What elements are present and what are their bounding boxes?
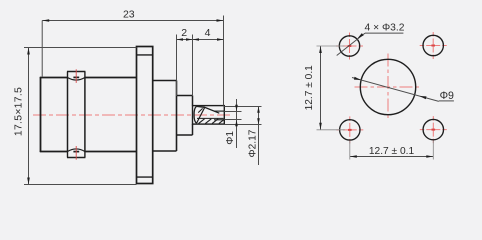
- dimension phi 9: [352, 78, 439, 102]
- top-right mounting hole crosshair: [420, 45, 447, 47]
- flange top corner line: [137, 54, 153, 56]
- bottom-left mounting hole: [340, 120, 360, 140]
- dimension 12.7 horizontal: [350, 156, 434, 158]
- bottom stud centerline: [75, 146, 77, 160]
- dimension 12.7 vertical: [320, 46, 322, 130]
- contact hatch: [199, 119, 205, 124]
- svg-text:Φ1: Φ1: [225, 131, 236, 145]
- center circle phi 9: [360, 59, 415, 114]
- svg-text:12.7 ± 0.1: 12.7 ± 0.1: [369, 146, 415, 157]
- rear small section: [177, 95, 193, 97]
- pin tip extension lines: [224, 111, 241, 113]
- svg-text:Φ2.17: Φ2.17: [247, 129, 258, 157]
- contact profile: [194, 106, 197, 123]
- bottom-right mounting hole: [423, 119, 443, 139]
- top-right mounting hole: [423, 35, 443, 55]
- top bayonet stud: [67, 72, 69, 78]
- flange bottom corner line: [137, 176, 153, 178]
- svg-text:2: 2: [181, 27, 187, 39]
- svg-text:23: 23: [123, 9, 135, 21]
- dimension 2: [177, 39, 193, 41]
- top-left mounting hole: [339, 36, 359, 56]
- leader 4x phi 3.2: [337, 33, 365, 55]
- dimension 4: [193, 39, 224, 41]
- pin diameter extension lines: [224, 106, 261, 108]
- bayonet lug vertical lines across body: [67, 78, 69, 152]
- centerline of side view: [33, 114, 231, 116]
- top-left mounting hole crosshair: [336, 45, 363, 47]
- bottom bayonet stud: [67, 152, 69, 158]
- bottom-right mounting hole crosshair: [420, 129, 447, 131]
- svg-text:Φ9: Φ9: [440, 90, 454, 102]
- pin tip lines: [214, 110, 224, 112]
- svg-text:17.5×17.5: 17.5×17.5: [14, 87, 25, 136]
- connector body front section outline: [40, 77, 42, 152]
- top stud centerline: [75, 69, 77, 83]
- flange face centerlines: [387, 54, 389, 121]
- bottom-left mounting hole crosshair: [336, 129, 363, 131]
- svg-text:12.7 ± 0.1: 12.7 ± 0.1: [304, 65, 315, 111]
- mounting flange side view: [137, 47, 153, 184]
- dimension phi 2.17: [258, 107, 260, 166]
- dimension 17.5x17.5: [28, 48, 30, 185]
- dimension phi 1: [236, 99, 238, 148]
- svg-text:4 × Φ3.2: 4 × Φ3.2: [365, 23, 405, 34]
- contact insulator outline: [193, 106, 225, 125]
- svg-text:4: 4: [205, 27, 211, 39]
- rear body section: [153, 80, 177, 82]
- dimension 23: [42, 20, 223, 22]
